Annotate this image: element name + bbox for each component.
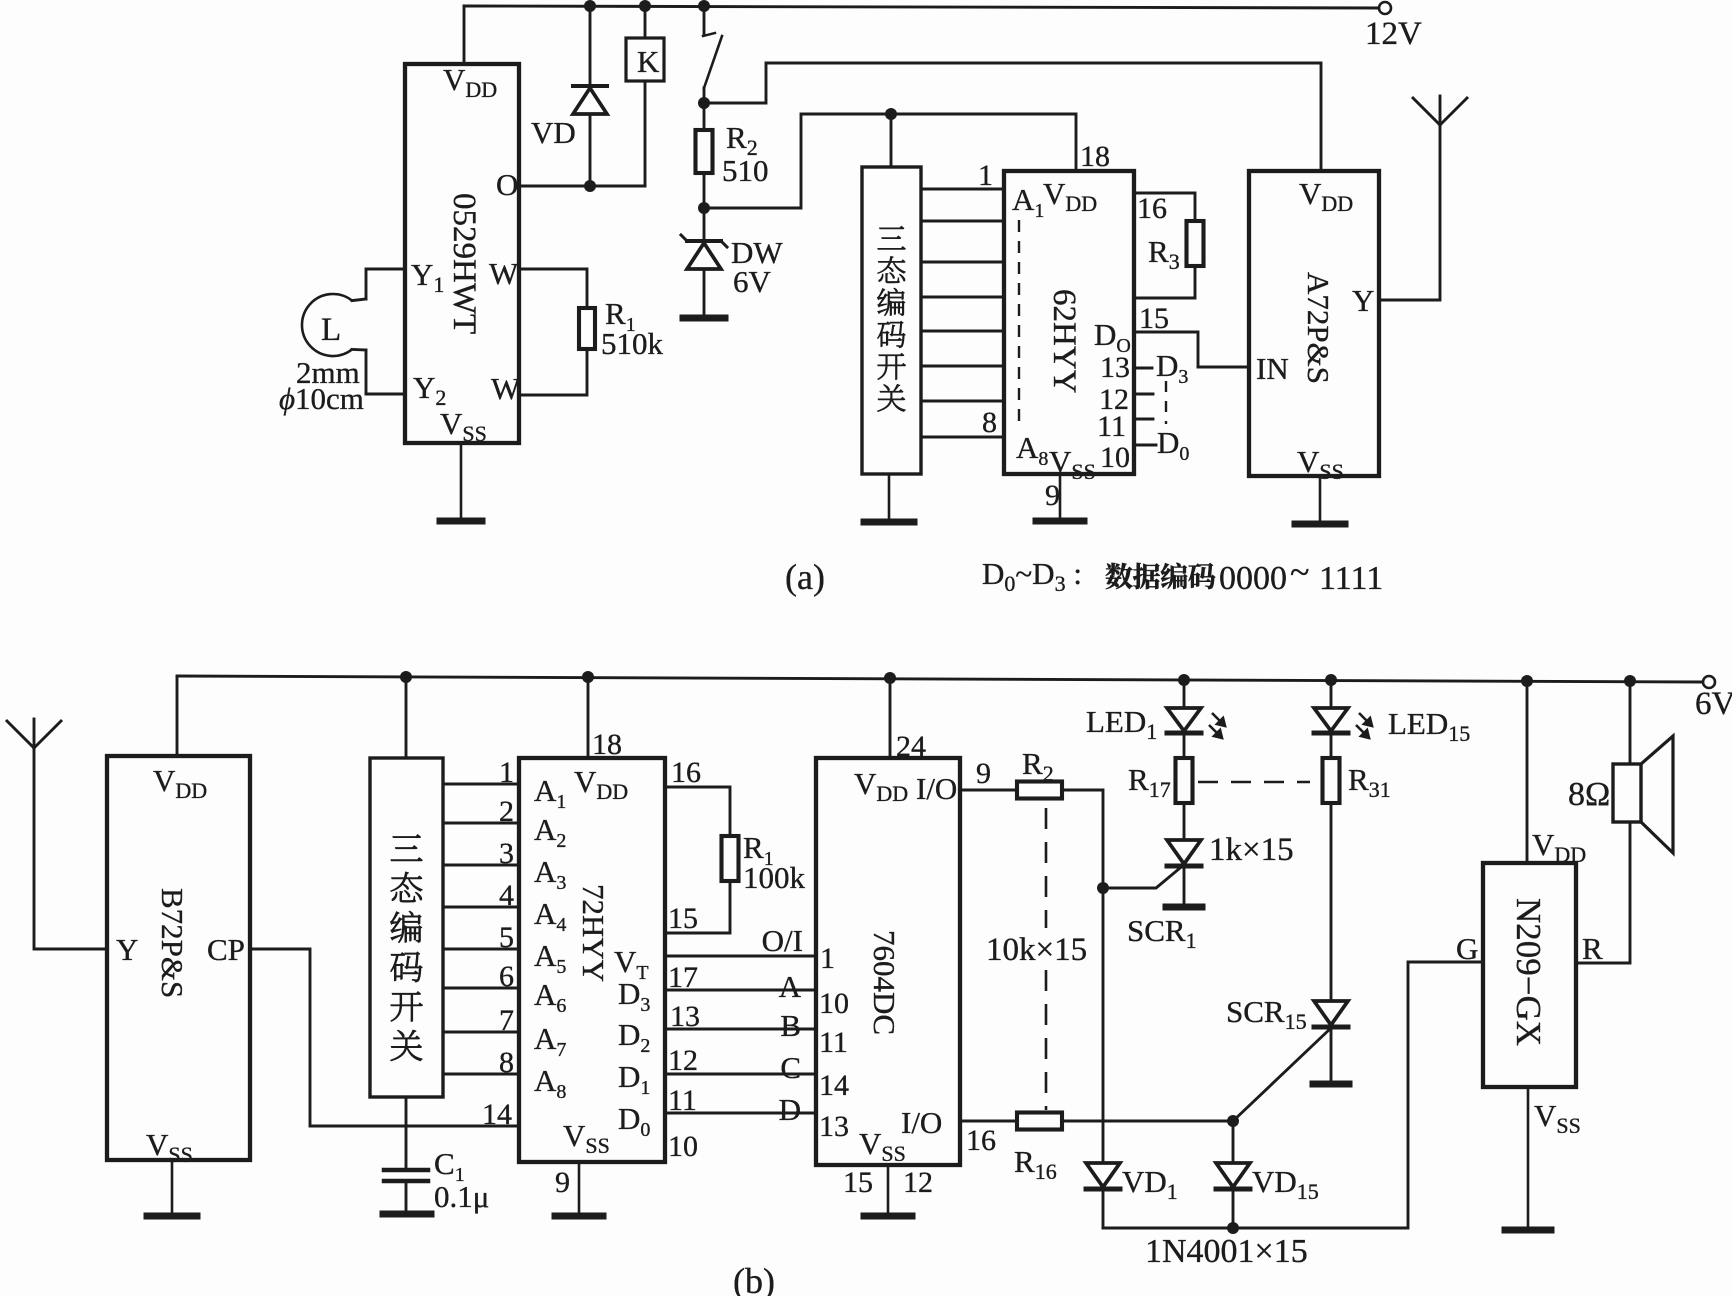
pin label 8 (a) [982,406,997,439]
svg-text:3: 3 [499,837,514,870]
svg-text:11: 11 [1097,410,1126,443]
IC CD4067 [762,678,960,1166]
resistor R16 [960,1113,1062,1185]
svg-text:IN: IN [1256,351,1289,386]
IC XG-902N [1456,681,1603,1138]
wires A1-A8 (a) [921,189,1004,437]
wire D2 to B [665,1029,816,1077]
svg-text:72HYY: 72HYY [576,884,611,982]
pin labels 1-8 (b) [499,756,514,1079]
node J2 [639,0,651,12]
svg-text:1k×15: 1k×15 [1209,832,1294,868]
relay K [626,6,664,186]
svg-text:1: 1 [499,756,514,789]
svg-text:7: 7 [499,1004,514,1037]
resistor R31 [1323,758,1391,803]
svg-text:(b): (b) [733,1261,775,1296]
pin 14 label [482,1098,512,1131]
node O-VD junction [584,180,596,192]
wire pin13 D3 [1100,348,1188,388]
label coil phi10cm [279,381,364,416]
wire VT to O/I [665,956,816,994]
pin 18 label YYH27 [592,728,622,761]
wire D0 to D [665,1113,816,1163]
wire D1 to C [665,1074,816,1117]
node rail K1 [400,671,412,683]
svg-text:62HYY: 62HYY [1046,289,1082,394]
label (a) [785,557,825,597]
label (b) [733,1261,775,1296]
IC S&P27A [1249,171,1379,484]
svg-text:14: 14 [482,1098,512,1131]
wire 6V power rail (b) [177,676,1703,682]
ground C1 [383,1211,431,1218]
svg-text:I/O: I/O [901,1105,942,1140]
svg-text:0529HWT: 0529HWT [446,193,482,334]
wire O pin [519,185,645,188]
svg-text:ϕ10cm: ϕ10cm [279,381,364,416]
IC YYH27 [519,677,665,1162]
svg-text:A72P&S: A72P&S [1301,272,1336,384]
ground TWH9250 [440,443,482,521]
svg-text:510: 510 [722,153,769,188]
svg-text:I/O: I/O [916,771,957,806]
svg-text:O: O [496,167,518,202]
wire pin11 [1097,410,1153,443]
node J1 [584,0,596,12]
svg-text:0000: 0000 [1219,560,1287,597]
node rail K5 [1325,674,1337,686]
ground DW [683,315,725,322]
ground S&P27A [1295,476,1345,524]
node rail K6 [1521,675,1533,687]
wire R to speaker [1576,822,1630,963]
svg-text:9: 9 [1045,479,1060,512]
wires A1-A8 (b) [443,784,519,1074]
svg-text:K: K [637,44,660,79]
pin 12 label CD4067 [903,1166,933,1199]
tri-state encoder switch box (b) [370,677,443,1097]
svg-text:10: 10 [1100,441,1130,474]
node rail K3 [884,672,896,684]
svg-text:0.1μ: 0.1μ [434,1179,489,1214]
svg-text:9: 9 [555,1166,570,1199]
wire R2 to VD1 [1062,790,1103,1163]
svg-text:8: 8 [499,1046,514,1079]
pin label 1 (a) [978,159,993,192]
switch S [703,6,722,103]
dashed D3-D0 (a) [1165,381,1167,424]
svg-text:CP: CP [207,932,245,967]
pin 9 label YYH27 [555,1166,570,1199]
pin 9 label YYH26 [1045,479,1060,512]
svg-text:4: 4 [499,879,514,912]
IC YYH26 [1004,171,1134,484]
svg-text:B72P&S: B72P&S [155,888,190,998]
caption D0~D3 [982,552,1383,597]
diode VD15 [1216,1121,1319,1228]
svg-text:100k: 100k [743,860,806,895]
svg-text:Y: Y [116,932,138,967]
svg-text:Y: Y [1352,283,1374,318]
wire VDD feed TWH9250 [463,6,466,64]
ground S&P27B [147,1160,197,1216]
svg-text:15: 15 [1139,302,1169,335]
svg-text:VD: VD [531,115,576,150]
ground YYH26 [1036,474,1084,521]
svg-text:A: A [779,969,802,1004]
wire R16 out [1062,1120,1233,1123]
node J3 [698,0,710,12]
antenna (b) [7,719,107,949]
svg-text:12: 12 [903,1166,933,1199]
svg-text:24: 24 [896,730,926,763]
wire pin12 [1099,383,1153,416]
svg-text:16: 16 [966,1124,996,1157]
resistor R1 (a) [519,269,664,395]
svg-text:L: L [321,312,341,348]
svg-text:10: 10 [819,987,849,1020]
svg-text:~: ~ [1290,552,1309,592]
wire Y to antenna (a) [1379,125,1440,300]
wire diode bus to G [1103,962,1483,1228]
SCR1 [1103,803,1294,953]
12V supply terminal [1365,2,1422,52]
svg-text:15: 15 [843,1166,873,1199]
node rail K4 [1178,674,1190,686]
svg-text:C: C [780,1050,801,1085]
ground XG-902N [1505,1087,1551,1230]
svg-text:16: 16 [1137,192,1167,225]
IC TWH9250 [405,62,521,446]
svg-text:7604DC: 7604DC [867,930,902,1035]
svg-text:13: 13 [1100,351,1130,384]
node encoder switch feed [885,108,897,120]
pin 18 label YYH26 [1080,140,1110,173]
LED1 [1086,680,1225,758]
SCR15 [1226,803,1349,1121]
labels A1-A8 (b) [534,773,566,1103]
wire R2 out to YYH26 VDD [704,114,1076,208]
svg-text:13: 13 [819,1110,849,1143]
svg-text:B: B [780,1008,801,1043]
wire D3 to A [665,990,816,1033]
svg-text:6V: 6V [733,264,772,299]
wire pin10 D0 [1100,425,1189,474]
zener diode DW [681,208,783,316]
svg-text:6V: 6V [1695,686,1732,722]
svg-text:510k: 510k [601,326,664,361]
capacitor C1 [384,1097,489,1214]
svg-text:D0~D3 :: D0~D3 : [982,556,1082,596]
wire D_O pin 15 [1134,302,1198,367]
svg-text:R: R [1582,931,1603,966]
svg-text:14: 14 [819,1069,849,1102]
svg-text:D: D [779,1092,801,1127]
svg-text:12V: 12V [1365,16,1422,52]
dashed 10k x15 [986,808,1087,1110]
diode VD [531,6,607,186]
wire CP to pin14 [250,949,519,1126]
pin 24 label [896,730,926,763]
wire switch to S&P27A VDD [704,63,1321,171]
ground encoder switch (a) [864,474,914,522]
ground YYH27 [555,1162,603,1216]
resistor R17 [1128,758,1193,803]
wire 12V power rail (a) [464,6,1384,8]
svg-text:10k×15: 10k×15 [986,932,1087,968]
node SCR15 gate junction [1227,1115,1239,1127]
diode VD1 [1086,1163,1178,1228]
ground CD4067 [864,1165,912,1216]
svg-text:1N4001×15: 1N4001×15 [1145,1233,1308,1270]
svg-text:2: 2 [499,795,514,828]
resistor R2 (b) [960,746,1062,799]
LED15 [1314,680,1470,758]
svg-text:1: 1 [820,942,835,975]
svg-text:8: 8 [982,406,997,439]
svg-text:12: 12 [668,1044,698,1077]
label coil 2mm [296,355,360,390]
IC S&P27B [107,677,250,1167]
svg-text:5: 5 [499,921,514,954]
svg-text:16: 16 [671,756,701,789]
svg-text:9: 9 [976,757,991,790]
node R2-DW junction [698,202,710,214]
svg-text:6: 6 [499,960,514,993]
node rail K7 [1624,675,1636,687]
tri-state encoder switch box (a) [862,114,921,474]
svg-text:10: 10 [668,1130,698,1163]
speaker [1568,681,1673,853]
svg-text:1111: 1111 [1319,560,1383,597]
antenna (a) [1413,96,1467,125]
svg-text:11: 11 [819,1026,848,1059]
wire IN [1198,366,1249,369]
wire Y2 [366,393,405,396]
node VD15 bottom [1227,1222,1239,1234]
svg-text:N209−GX: N209−GX [1509,898,1548,1046]
svg-text:O/I: O/I [762,923,803,958]
svg-text:18: 18 [592,728,622,761]
label 1N4001x15 [1145,1233,1308,1270]
dashed R17-R31 [1198,781,1310,783]
svg-text:W: W [489,256,519,291]
svg-text:18: 18 [1080,140,1110,173]
node SCR1 gate junction [1097,882,1109,894]
resistor R1 (b) [665,756,806,935]
inductor coil L [302,269,405,394]
svg-text:W: W [491,371,521,406]
node switch out [698,97,710,109]
resistor R2 [696,103,769,208]
pin 15 label CD4067 [843,1166,873,1199]
resistor R3 [1134,192,1204,298]
svg-text:8Ω: 8Ω [1568,776,1610,813]
svg-text:15: 15 [668,902,698,935]
svg-text:(a): (a) [785,557,825,597]
svg-text:G: G [1456,931,1478,966]
svg-text:1: 1 [978,159,993,192]
node rail K2 [582,671,594,683]
6V supply terminal [1695,676,1732,722]
